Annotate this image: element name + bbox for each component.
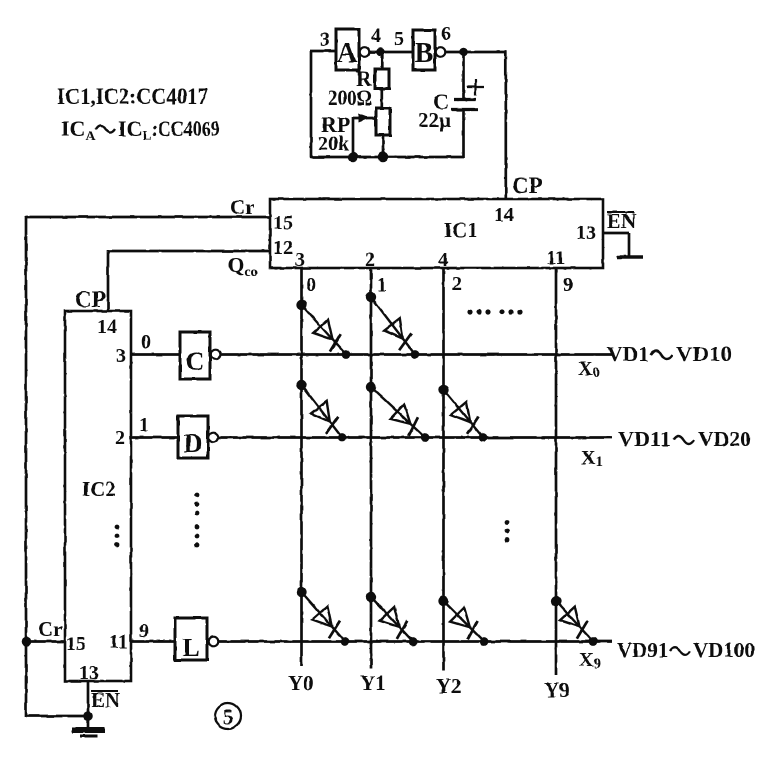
wire left rail vertical bbox=[25, 216, 28, 717]
diode group VD13 col Y2 row X1 bbox=[438, 385, 487, 442]
IC1 box bbox=[270, 199, 603, 268]
inverter C bbox=[180, 332, 210, 379]
wire node6 right bbox=[445, 51, 507, 54]
potentiometer RP body bbox=[376, 108, 390, 135]
wire wiper down bbox=[352, 117, 355, 158]
label CP (IC1 clock) bbox=[512, 173, 543, 198]
label Y9 bbox=[544, 678, 570, 702]
svg-text:VD11: VD11 bbox=[618, 427, 671, 451]
pin 14 label IC1 bbox=[494, 204, 514, 226]
svg-text:5: 5 bbox=[394, 28, 404, 50]
svg-text:12: 12 bbox=[273, 237, 293, 259]
label CP (IC2 clock) bbox=[75, 287, 106, 312]
svg-text:Y2: Y2 bbox=[436, 674, 462, 698]
pin 4 label bbox=[371, 25, 381, 47]
label Y1 bbox=[360, 671, 386, 695]
label EN (IC2 enable) bbox=[91, 688, 120, 712]
capacitor C plates bbox=[451, 100, 478, 110]
ground IC2 bbox=[72, 730, 105, 736]
svg-text:Y1: Y1 bbox=[360, 671, 386, 695]
svg-text:2: 2 bbox=[115, 427, 125, 449]
svg-text:1: 1 bbox=[377, 274, 387, 296]
wire column Y0 bbox=[300, 268, 303, 666]
wire node4 to R bbox=[380, 52, 383, 70]
inverter L bbox=[175, 618, 207, 662]
pin 12 label IC1 bbox=[273, 237, 293, 259]
svg-text:15: 15 bbox=[66, 633, 86, 655]
svg-text:A: A bbox=[337, 38, 358, 69]
label RP bbox=[321, 112, 350, 137]
label Cr (IC2 reset) bbox=[38, 617, 63, 641]
svg-text:14: 14 bbox=[97, 316, 117, 338]
bubble A output bbox=[360, 47, 370, 57]
svg-text:Cr: Cr bbox=[38, 617, 63, 641]
diode group VD93 col Y2 row X9 bbox=[438, 596, 488, 646]
pin 3 label IC1 bottom bbox=[295, 249, 305, 271]
label X9 bbox=[579, 649, 601, 672]
diode group VD12 col Y1 row X1 bbox=[366, 382, 430, 442]
wire node4 to B bbox=[369, 51, 413, 54]
svg-text:Cr: Cr bbox=[230, 195, 255, 219]
ground IC1 EN bbox=[617, 255, 643, 259]
wire osc left vertical bbox=[310, 51, 313, 158]
row X9 wire bbox=[219, 640, 613, 643]
diode group VD2 col Y1 row X0 bbox=[366, 292, 420, 359]
svg-text:CP: CP bbox=[75, 287, 106, 312]
svg-text:2: 2 bbox=[365, 249, 375, 271]
svg-text:CP: CP bbox=[512, 173, 543, 198]
label 0 (row X0) bbox=[141, 331, 151, 353]
label Y2 bbox=[436, 674, 462, 698]
label IC2 bbox=[82, 477, 116, 501]
svg-text:6: 6 bbox=[441, 23, 451, 45]
diode group VD1 col Y0 row X0 bbox=[296, 300, 350, 359]
capacitor C plus sign bbox=[467, 79, 484, 95]
pin 3 label IC2 bbox=[116, 345, 126, 367]
svg-text:1: 1 bbox=[139, 414, 149, 436]
svg-text:IC2: IC2 bbox=[82, 477, 116, 501]
IC2 internal ellipsis bbox=[115, 525, 120, 548]
label Cr (IC1 reset) bbox=[230, 195, 255, 219]
pin 15 label IC1 bbox=[273, 212, 293, 234]
svg-text:4: 4 bbox=[371, 25, 381, 47]
label 20k bbox=[318, 133, 350, 155]
label output 2 bbox=[452, 273, 462, 295]
pin 2 label IC2 bbox=[115, 427, 125, 449]
svg-text:14: 14 bbox=[494, 204, 514, 226]
label X1 bbox=[581, 447, 603, 470]
resistor R bbox=[375, 69, 389, 89]
pin 14 label IC2 bbox=[97, 316, 117, 338]
svg-text:L: L bbox=[182, 633, 199, 662]
wire osc bottom rail bbox=[310, 156, 464, 159]
wire pin2 to inverter D bbox=[131, 436, 178, 439]
label ICA~ICL:CC4069 bbox=[61, 116, 220, 144]
svg-text:B: B bbox=[415, 38, 434, 69]
diode group VD11 col Y0 row X1 bbox=[296, 380, 346, 442]
figure number 5 circled bbox=[215, 703, 241, 729]
label C bbox=[433, 89, 449, 114]
diode group VD100 col Y9 row X9 bbox=[551, 596, 598, 646]
row X1 wire bbox=[219, 436, 613, 439]
pin 4 label IC1 bottom bbox=[438, 249, 448, 271]
wire pin13 to ground bbox=[603, 233, 629, 256]
wire R to RP bbox=[380, 88, 383, 108]
wire Qco down to IC2 bbox=[107, 250, 110, 312]
label output 9 bbox=[563, 274, 573, 296]
matrix ellipsis bbox=[505, 520, 510, 543]
svg-text:0: 0 bbox=[141, 331, 151, 353]
diode group VD91 col Y0 row X9 bbox=[296, 587, 349, 646]
label Y0 bbox=[288, 671, 314, 695]
row X0 wire bbox=[221, 353, 613, 356]
svg-text:13: 13 bbox=[576, 222, 596, 244]
wire A input bbox=[310, 50, 336, 53]
pin 15 label IC2 bbox=[66, 633, 86, 655]
svg-text:VD91: VD91 bbox=[617, 638, 668, 662]
svg-text:9: 9 bbox=[563, 274, 573, 296]
label VD11~VD20 bbox=[618, 427, 751, 451]
pin 3 label A input bbox=[320, 29, 330, 51]
svg-text:VD100: VD100 bbox=[693, 638, 755, 662]
svg-text:IC1,IC2:CC4017: IC1,IC2:CC4017 bbox=[57, 84, 208, 109]
svg-text:IC1: IC1 bbox=[444, 218, 478, 242]
svg-text:D: D bbox=[184, 429, 203, 458]
wire pin11 to inverter L bbox=[131, 640, 175, 643]
label VD91~VD100 bbox=[617, 638, 755, 662]
label IC1 bbox=[444, 218, 478, 242]
label 1 (row X1) bbox=[139, 414, 149, 436]
wire Qco horizontal bbox=[108, 250, 270, 253]
inverter D bbox=[178, 416, 208, 458]
svg-text:11: 11 bbox=[109, 631, 128, 653]
bubble C output bbox=[211, 350, 221, 360]
svg-text:0: 0 bbox=[306, 274, 316, 296]
RP wiper arrow bbox=[353, 114, 376, 123]
wire left rail to pin13 bbox=[26, 715, 88, 718]
wire RP bottom bbox=[382, 135, 385, 158]
label Qco bbox=[228, 253, 258, 280]
wire pin13 down bbox=[87, 681, 90, 717]
junction pin13 node bbox=[83, 711, 93, 721]
svg-text:200Ω: 200Ω bbox=[328, 85, 372, 110]
inverter B bbox=[413, 30, 435, 70]
svg-text:C: C bbox=[186, 347, 205, 376]
label output 0 bbox=[306, 274, 316, 296]
svg-text:5: 5 bbox=[223, 705, 234, 729]
label VD1~VD10 bbox=[607, 342, 732, 366]
pin 2 label IC1 bottom bbox=[365, 249, 375, 271]
pin 5 label bbox=[394, 28, 404, 50]
wire Cr to left rail bbox=[26, 216, 270, 219]
svg-text:Y0: Y0 bbox=[288, 671, 314, 695]
junction Cr left rail bbox=[22, 637, 32, 647]
ellipsis dots top bbox=[467, 309, 522, 314]
label R bbox=[356, 66, 373, 91]
inverter A bbox=[336, 29, 359, 70]
label EN (IC1 enable) bbox=[607, 209, 636, 233]
svg-text:20k: 20k bbox=[318, 133, 350, 155]
label 200ohm bbox=[328, 85, 372, 110]
node 4 bbox=[376, 48, 385, 57]
svg-text:VD20: VD20 bbox=[698, 427, 751, 451]
label 9 (row X9) bbox=[139, 620, 149, 642]
wire column Y2 bbox=[442, 268, 445, 670]
wire column Y9 bbox=[555, 268, 558, 675]
wire C top bbox=[462, 52, 465, 98]
wire ground stem bbox=[87, 716, 90, 729]
svg-text:ICL:CC4069: ICL:CC4069 bbox=[118, 116, 220, 144]
bubble B output bbox=[436, 47, 446, 57]
svg-text:3: 3 bbox=[320, 29, 330, 51]
wire pin3 to inverter C bbox=[131, 353, 180, 356]
IC2 box bbox=[65, 311, 131, 681]
svg-text:Y9: Y9 bbox=[544, 678, 570, 702]
svg-text:22μ: 22μ bbox=[418, 108, 451, 132]
wire CP vertical bbox=[504, 51, 507, 200]
pin 13 label IC2 bbox=[79, 662, 99, 684]
svg-text:3: 3 bbox=[295, 249, 305, 271]
svg-text:15: 15 bbox=[273, 212, 293, 234]
pin 11 label IC1 bottom bbox=[546, 247, 565, 269]
diode group VD92 col Y1 row X9 bbox=[366, 592, 418, 646]
wire Cr IC2 bbox=[26, 640, 65, 643]
wire column Y1 bbox=[370, 268, 373, 668]
bubble D output bbox=[209, 433, 219, 443]
svg-text:VD1: VD1 bbox=[607, 342, 649, 366]
pin 6 label bbox=[441, 23, 451, 45]
node 6 bbox=[459, 48, 468, 57]
svg-text:4: 4 bbox=[438, 249, 448, 271]
svg-text:3: 3 bbox=[116, 345, 126, 367]
pin 13 label IC1 bbox=[576, 222, 596, 244]
gate column ellipsis bbox=[195, 493, 200, 548]
label output 1 bbox=[377, 274, 387, 296]
junction RP-rail bbox=[378, 152, 389, 163]
bubble L output bbox=[209, 637, 219, 647]
svg-text:2: 2 bbox=[452, 273, 462, 295]
svg-text:VD10: VD10 bbox=[676, 342, 732, 366]
wire C bottom bbox=[462, 110, 465, 158]
label IC1,IC2:CC4017 bbox=[57, 84, 208, 109]
pin 11 label IC2 bbox=[109, 631, 128, 653]
label 22u bbox=[418, 108, 451, 132]
svg-text:9: 9 bbox=[139, 620, 149, 642]
svg-text:13: 13 bbox=[79, 662, 99, 684]
label X0 bbox=[578, 358, 600, 381]
svg-text:11: 11 bbox=[546, 247, 565, 269]
junction wiper-rail bbox=[348, 152, 359, 163]
